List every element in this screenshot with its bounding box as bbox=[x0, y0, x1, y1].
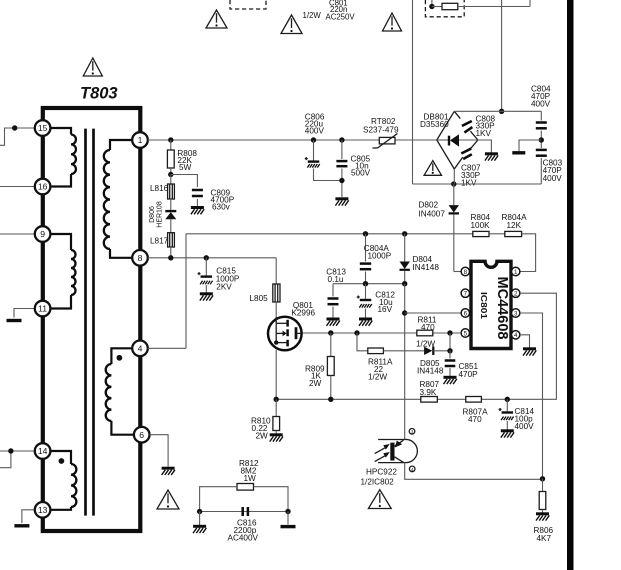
capacitor C815 bbox=[198, 258, 213, 293]
wire (rail y=184) bbox=[413, 183, 542, 185]
node (C804/C803 junction) bbox=[539, 137, 544, 142]
ground (transformer pin 6) bbox=[162, 468, 175, 475]
wire (to isolated bar) bbox=[519, 140, 541, 151]
thermistor RT802 bbox=[373, 134, 398, 149]
pin 8 bbox=[132, 250, 148, 266]
node (pin 15 branch) bbox=[12, 125, 17, 130]
svg-text:MC44608: MC44608 bbox=[494, 277, 510, 340]
svg-text:400V: 400V bbox=[305, 127, 325, 136]
node (C805/C806 bottom) bbox=[339, 178, 344, 183]
transformer core lines bbox=[86, 129, 94, 516]
wire (opto emitter to R806 node) bbox=[405, 463, 543, 480]
ground (isolated bar near C803) bbox=[512, 151, 525, 154]
wire (bottom rail) bbox=[276, 398, 507, 400]
ground (C815) bbox=[200, 294, 213, 301]
label IC801 bbox=[479, 292, 489, 319]
svg-text:6: 6 bbox=[464, 310, 468, 317]
capacitor C803 bbox=[536, 150, 547, 184]
ground (C851) bbox=[444, 377, 457, 384]
svg-text:470P: 470P bbox=[459, 370, 479, 379]
pin 13 bbox=[35, 502, 51, 518]
label C805 10n 500V bbox=[351, 155, 371, 178]
label C815 1000P 2KV bbox=[216, 267, 240, 292]
node (C816 right) bbox=[285, 509, 290, 514]
wire (pin 4 riser to rail y=234) bbox=[148, 234, 473, 348]
transistor Q801 circle bbox=[268, 302, 302, 350]
inductor L816 bbox=[168, 175, 175, 200]
wire (D804 to pin6 node and opto) bbox=[404, 284, 406, 440]
pin 8 (IC801) bbox=[461, 267, 469, 276]
optocoupler HPC922 phototransistor bbox=[375, 439, 418, 462]
ground (R806) bbox=[536, 514, 549, 521]
resistor R809 bbox=[327, 333, 334, 399]
label L816 bbox=[150, 184, 169, 193]
svg-text:4: 4 bbox=[514, 332, 518, 339]
label R809 1K 2W bbox=[305, 365, 325, 389]
capacitor C813 bbox=[328, 284, 339, 318]
svg-text:5: 5 bbox=[464, 330, 468, 337]
wire (pin 3 to R806 node) bbox=[520, 313, 543, 479]
label R804A 12K bbox=[502, 213, 528, 230]
node (D805/C851) bbox=[447, 348, 452, 353]
label R807A 470 bbox=[463, 408, 489, 425]
capacitor C801 label (cut at top edge) bbox=[329, 0, 348, 14]
label C816 2200p AC400V bbox=[228, 519, 259, 543]
label C814 100p 400V bbox=[515, 407, 535, 431]
ground (IC pin 4) bbox=[523, 349, 536, 356]
node (C806 top) bbox=[311, 137, 316, 142]
capacitor C809 bbox=[192, 190, 203, 196]
pin 16 bbox=[35, 179, 51, 195]
pin 4 (IC801) bbox=[512, 331, 520, 340]
wire (main rail pin1 to bridge) bbox=[148, 139, 437, 141]
svg-text:1KV: 1KV bbox=[476, 129, 492, 138]
svg-text:IN4148: IN4148 bbox=[413, 263, 440, 272]
label MC44608 bbox=[494, 277, 510, 340]
winding 1-8 (primary) bbox=[104, 140, 132, 258]
wire (C816 left ground lead) bbox=[199, 512, 201, 526]
svg-text:6: 6 bbox=[139, 430, 144, 440]
node (C804A top) bbox=[363, 231, 368, 236]
op-amp U1 IC801 MC44608 body bbox=[471, 261, 511, 348]
diode (inside DB801) bbox=[437, 134, 478, 146]
node (C815 tap) bbox=[204, 255, 209, 260]
pin 4 bbox=[132, 341, 148, 357]
capacitor C816 bbox=[243, 507, 248, 516]
svg-text:L816: L816 bbox=[150, 184, 169, 193]
winding 4-6 bbox=[106, 348, 134, 434]
svg-text:8: 8 bbox=[138, 253, 143, 263]
resistor R806 bbox=[539, 479, 546, 513]
svg-text:7: 7 bbox=[464, 291, 468, 298]
wire (bridge top rail) bbox=[454, 111, 541, 120]
wire (pin 8 rail to L805) bbox=[148, 258, 276, 284]
svg-text:3: 3 bbox=[411, 429, 414, 434]
label L817 bbox=[150, 237, 169, 246]
svg-text:14: 14 bbox=[38, 446, 48, 456]
pin 2 (IC801) bbox=[512, 289, 520, 298]
diode D805 bbox=[424, 347, 433, 355]
svg-text:IN4007: IN4007 bbox=[419, 210, 446, 219]
svg-text:L805: L805 bbox=[250, 294, 269, 303]
capacitor C812 bbox=[357, 284, 372, 318]
svg-text:8: 8 bbox=[464, 269, 468, 276]
svg-text:1/2W: 1/2W bbox=[368, 373, 387, 382]
svg-text:5W: 5W bbox=[179, 163, 192, 172]
node (R811A tap) bbox=[354, 330, 359, 335]
wire (stub above node, cut by edge) bbox=[431, 0, 433, 7]
pin 3 (HPC922) bbox=[409, 429, 415, 435]
ground (C816 right, isolated bar) bbox=[281, 525, 296, 528]
svg-text:2: 2 bbox=[514, 291, 518, 298]
wire (bridge bottom vertex down) bbox=[453, 169, 455, 184]
label DB801 D35360 bbox=[420, 113, 449, 130]
svg-text:630v: 630v bbox=[212, 203, 231, 212]
svg-text:T803: T803 bbox=[80, 85, 118, 103]
wire (D805 to node) bbox=[433, 333, 450, 351]
bridge DB801 diamond upper-right edge bbox=[454, 111, 478, 140]
wire (rail y=284) bbox=[333, 283, 405, 285]
svg-text:IN4148: IN4148 bbox=[417, 367, 444, 376]
node (pin 6 wire tap) bbox=[402, 310, 407, 315]
diode D804 bbox=[400, 234, 410, 284]
wire (C816 rail) bbox=[200, 511, 288, 513]
label R804 100K bbox=[471, 213, 491, 230]
node (C812 top) bbox=[363, 281, 368, 286]
resistor R811A bbox=[368, 348, 384, 354]
ground (pin 13, isolated bar) bbox=[14, 524, 29, 527]
label R808 22K 5W bbox=[177, 149, 197, 172]
label R812 8M2 1W bbox=[239, 459, 259, 483]
node (R806 top) bbox=[540, 476, 545, 481]
label R811A 22 1/2W bbox=[368, 358, 393, 382]
svg-text:11: 11 bbox=[38, 304, 47, 314]
node (riser joins bridge top rail) bbox=[499, 109, 504, 114]
wire (C816 right ground lead) bbox=[287, 512, 289, 525]
resistor R808 bbox=[167, 140, 174, 175]
svg-text:HER108: HER108 bbox=[157, 201, 164, 228]
pin 6 bbox=[134, 427, 150, 443]
wire (bridge right to ground) bbox=[478, 140, 492, 153]
node (pin5/C851 branch) bbox=[447, 330, 452, 335]
warning symbol (bottom left) bbox=[157, 490, 179, 509]
ground (C809) bbox=[191, 208, 204, 215]
svg-text:9: 9 bbox=[40, 229, 45, 239]
svg-text:HPC922: HPC922 bbox=[366, 468, 397, 477]
node (D802 top) bbox=[451, 181, 456, 186]
svg-text:470: 470 bbox=[421, 323, 435, 332]
label C807 330P 1KV bbox=[461, 164, 481, 188]
label R806 4K7 bbox=[534, 526, 554, 543]
svg-text:S237-479: S237-479 bbox=[363, 126, 399, 135]
label Q801 K2996 bbox=[291, 301, 315, 318]
svg-text:1/2IC802: 1/2IC802 bbox=[361, 478, 395, 487]
svg-text:1W: 1W bbox=[244, 474, 257, 483]
wire (pin 4 to ground) bbox=[520, 335, 530, 348]
wire (R811A branch) bbox=[357, 333, 368, 351]
node (D804 top) bbox=[402, 231, 407, 236]
ground (R810) bbox=[270, 435, 283, 442]
label L805 bbox=[250, 294, 269, 303]
svg-text:13: 13 bbox=[38, 505, 48, 515]
wire (to IC pin 6) bbox=[405, 312, 461, 314]
capacitor C806 bbox=[305, 140, 342, 181]
svg-text:L817: L817 bbox=[150, 237, 169, 246]
node (C814 top) bbox=[505, 397, 510, 402]
wire (L817 to pin8 rail) bbox=[170, 247, 172, 258]
svg-text:400V: 400V bbox=[515, 422, 535, 431]
label C809 4700P 630v bbox=[211, 189, 235, 212]
wire (R812 loop) bbox=[200, 487, 288, 512]
label C801 value 1/2W bbox=[303, 11, 322, 20]
dashed box fragment (top) bbox=[230, 0, 266, 9]
resistor R807 bbox=[421, 397, 438, 403]
winding 9-11 bbox=[50, 234, 76, 309]
wire (left riser x=412.5 from top edge) bbox=[412, 0, 414, 184]
label C804 470P 400V bbox=[531, 85, 551, 109]
label D805 IN4148 bbox=[417, 359, 444, 376]
wire (R811A to D805) bbox=[383, 350, 424, 352]
ground (pin 11, isolated bar) bbox=[7, 319, 22, 322]
label T803 bbox=[80, 85, 118, 103]
wire (gate rail Q801 to IC pin 5) bbox=[302, 332, 462, 334]
ground (C812) bbox=[359, 319, 372, 326]
diode D802 bbox=[449, 184, 459, 272]
capacitor C807 (in bridge) bbox=[461, 149, 472, 159]
svg-text:AC250V: AC250V bbox=[326, 13, 356, 22]
svg-text:2W: 2W bbox=[256, 432, 269, 441]
warning symbol (above T803) bbox=[83, 58, 102, 76]
node (C816 left) bbox=[197, 509, 202, 514]
wire (pin 2 to C814 node) bbox=[507, 293, 556, 399]
svg-text:16V: 16V bbox=[378, 305, 393, 314]
node (pin 14 branch) bbox=[8, 448, 13, 453]
ground (C805) bbox=[335, 199, 348, 206]
label D802 IN4007 bbox=[419, 201, 446, 219]
svg-text:1000P: 1000P bbox=[368, 252, 392, 261]
node (junction in dashed box) bbox=[429, 4, 434, 9]
label RT802 S237-479 bbox=[363, 117, 399, 135]
ground (C814) bbox=[501, 431, 514, 438]
svg-text:400V: 400V bbox=[531, 100, 551, 109]
wire (D802 to IC pin 8) bbox=[454, 271, 461, 273]
dashed box (top right, cut) bbox=[425, 0, 464, 17]
resistor (top right, unlabeled) bbox=[432, 3, 458, 9]
label C801 value AC250V bbox=[326, 13, 356, 22]
label R807 3.9K bbox=[420, 380, 440, 397]
svg-text:K2996: K2996 bbox=[291, 309, 315, 318]
svg-text:12K: 12K bbox=[507, 221, 522, 230]
svg-text:4: 4 bbox=[411, 467, 414, 472]
wire (R804 to R804A) bbox=[489, 233, 505, 235]
label R810 0.22 2W bbox=[251, 417, 271, 441]
node (R808 bottom / C809 tap) bbox=[168, 172, 173, 177]
node (R809 top) bbox=[328, 330, 333, 335]
node (R809 bottom) bbox=[328, 397, 333, 402]
svg-text:D802: D802 bbox=[419, 201, 439, 210]
svg-text:4: 4 bbox=[138, 343, 143, 353]
label C803 470P 400V bbox=[543, 159, 563, 184]
svg-text:470: 470 bbox=[468, 415, 482, 424]
pin 6 (IC801) bbox=[461, 309, 469, 318]
svg-text:2W: 2W bbox=[309, 379, 322, 388]
pin 11 bbox=[35, 301, 51, 317]
wire (to C809) bbox=[171, 175, 198, 188]
label D804 IN4148 bbox=[413, 255, 440, 272]
capacitor C804 bbox=[536, 123, 547, 149]
label C812 10u 16V bbox=[375, 291, 395, 315]
wire (pin 16 to left edge) bbox=[0, 186, 34, 188]
warning symbol (below bridge) bbox=[424, 161, 441, 176]
resistor R807A bbox=[466, 397, 482, 403]
svg-text:400V: 400V bbox=[543, 174, 563, 183]
pin 14 bbox=[35, 443, 51, 459]
svg-text:16: 16 bbox=[38, 182, 48, 192]
node (D804 bottom) bbox=[402, 281, 407, 286]
svg-text:AC400V: AC400V bbox=[228, 534, 259, 543]
svg-text:1/2W: 1/2W bbox=[303, 11, 322, 20]
page border bar (right) bbox=[567, 0, 574, 570]
capacitor C851 bbox=[445, 351, 456, 376]
label C813 0.1u bbox=[326, 268, 346, 285]
wire (pin 11 to ground) bbox=[14, 309, 34, 318]
warning symbol (top, at C801) bbox=[281, 15, 302, 34]
inductor L805 bbox=[273, 284, 280, 302]
resistor R811 bbox=[417, 330, 433, 336]
pin 7 (IC801) bbox=[461, 289, 469, 298]
svg-text:3.9K: 3.9K bbox=[420, 388, 437, 397]
resistor R812 bbox=[237, 484, 254, 491]
wire (pin 9 to left edge) bbox=[0, 233, 34, 235]
pin 1 (IC801) bbox=[512, 267, 520, 276]
wire (Q801 source down) bbox=[275, 350, 277, 400]
bridge DB801 diamond lower-right edge bbox=[454, 140, 478, 169]
label C806 220u 400V bbox=[305, 113, 325, 136]
wire (pin 15 to left edge) bbox=[0, 128, 34, 145]
pin 5 (IC801) bbox=[461, 329, 469, 338]
label C851 470P bbox=[459, 362, 479, 379]
diode D806 bbox=[165, 199, 176, 219]
capacitor C814 bbox=[499, 399, 514, 429]
resistor R804A bbox=[505, 231, 522, 236]
label C808 330P 1KV bbox=[476, 115, 496, 139]
node (R808 top) bbox=[168, 137, 173, 142]
warning symbol (top, right) bbox=[383, 13, 402, 31]
pin 1 bbox=[132, 132, 148, 148]
transformer T803 core box bbox=[43, 108, 141, 531]
transistor Q801 internals bbox=[274, 317, 302, 346]
resistor R804 bbox=[473, 231, 489, 236]
node (C805 top) bbox=[339, 137, 344, 142]
wire (pin 13 to ground) bbox=[22, 510, 35, 523]
bridge DB801 diamond upper-left edge bbox=[437, 111, 455, 140]
label D806 HER108 (rotated) bbox=[149, 201, 164, 228]
wire (resistor to top edge riser) bbox=[458, 0, 530, 7]
svg-text:IC801: IC801 bbox=[479, 292, 489, 319]
svg-text:1: 1 bbox=[138, 135, 143, 145]
capacitor C804A bbox=[360, 234, 371, 284]
label R811 470 1/2W bbox=[416, 316, 437, 349]
wire (C809 to ground) bbox=[196, 199, 198, 207]
ground (C816 left) bbox=[193, 526, 206, 533]
svg-text:3: 3 bbox=[514, 310, 518, 317]
svg-text:500V: 500V bbox=[351, 169, 371, 178]
ground (bridge output) bbox=[485, 154, 498, 161]
capacitor C805 bbox=[336, 140, 347, 197]
pin 9 bbox=[35, 226, 51, 242]
svg-text:0.1u: 0.1u bbox=[328, 275, 344, 284]
node (Q801 source / R810) bbox=[274, 397, 279, 402]
phase dot (winding 14-13) bbox=[59, 458, 65, 464]
svg-text:4K7: 4K7 bbox=[537, 534, 552, 543]
ground (C813) bbox=[327, 319, 340, 326]
wire (pin 14 to left edge) bbox=[0, 451, 35, 468]
label HPC922 1/2IC802 bbox=[361, 468, 398, 487]
phase dot (winding 4-6) bbox=[117, 355, 123, 361]
svg-text:2KV: 2KV bbox=[216, 283, 232, 292]
winding 15-16 bbox=[50, 128, 76, 187]
label C804A 1000P bbox=[364, 244, 392, 261]
bridge DB801 diamond lower-left edge bbox=[437, 140, 455, 169]
svg-text:1KV: 1KV bbox=[461, 179, 477, 188]
wire (R804A to IC pin 1) bbox=[520, 234, 536, 272]
resistor R810 bbox=[273, 399, 280, 433]
wire (pin 6 to ground) bbox=[150, 435, 168, 467]
node (L817 bottom) bbox=[168, 255, 173, 260]
wire (riser x=501.6 from top edge to bridge top rail) bbox=[501, 0, 503, 111]
warning symbol (top, left of C801 area) bbox=[206, 10, 227, 28]
svg-text:100K: 100K bbox=[471, 221, 491, 230]
winding 14-13 bbox=[50, 451, 76, 510]
svg-text:1: 1 bbox=[514, 269, 518, 276]
pin 3 (IC801) bbox=[512, 309, 520, 318]
pin 15 bbox=[35, 120, 51, 136]
capacitor C808 (in bridge) bbox=[462, 121, 473, 133]
svg-text:15: 15 bbox=[38, 123, 48, 133]
pin 4 (HPC922) bbox=[409, 466, 415, 472]
warning symbol (below HPC922) bbox=[368, 490, 391, 509]
inductor L817 bbox=[168, 219, 175, 247]
svg-text:D806: D806 bbox=[149, 206, 156, 223]
